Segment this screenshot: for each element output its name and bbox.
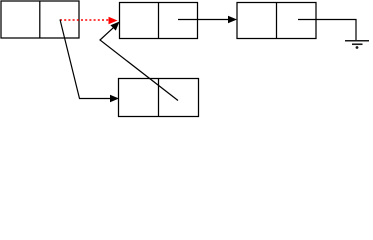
node box N4 (new node, two cells) <box>119 79 199 117</box>
ground (null) dot <box>356 46 359 49</box>
black arrowhead at N2 bottom-left (pointing NE) <box>110 22 119 31</box>
ground (null) bar 1 <box>345 40 369 42</box>
wire N2->N3 <box>178 19 229 21</box>
ground (null) bar 2 <box>352 43 363 45</box>
node box N2 (two cells) <box>120 3 198 39</box>
wire N1->N4 (down then right) <box>60 20 111 99</box>
black arrowhead at N3 left edge <box>228 16 237 24</box>
node box N3 (two cells) <box>237 3 316 39</box>
wire N4->N2 (diagonal with bend) <box>100 28 178 101</box>
black arrowhead at N4 left edge <box>110 95 119 103</box>
wire N3->null terminator <box>298 20 356 41</box>
red arrowhead at N2 left edge <box>109 17 118 25</box>
node box N1 (two cells) <box>1 1 79 38</box>
old pointer N1->N2 (red dashed wire) <box>60 19 109 21</box>
